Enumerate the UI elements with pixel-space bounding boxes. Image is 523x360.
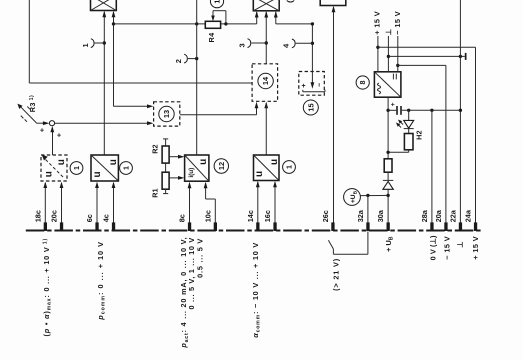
wire with arrow from box 4 up into box 14 bottom xyxy=(264,102,268,108)
node: dot diode bottom junction xyxy=(386,194,389,197)
svg-text:u: u xyxy=(56,159,67,165)
wire +15V rail to terminal 24a xyxy=(378,47,476,222)
svg-text:R4: R4 xyxy=(207,32,216,43)
svg-text:u: u xyxy=(269,159,280,165)
wire terminal 14c to block 4 xyxy=(256,181,260,224)
frame wire from left edge to box 14 xyxy=(29,0,252,83)
wire -15V rail to terminal 20a xyxy=(398,65,446,222)
svg-text:pcomm: 0 ... + 10 V: pcomm: 0 ... + 10 V xyxy=(96,241,107,321)
svg-text:20a: 20a xyxy=(434,209,443,222)
ground tick symbol xyxy=(465,53,467,60)
svg-text:+: + xyxy=(391,102,395,109)
resistor R4 (potentiometer) xyxy=(205,11,256,29)
svg-text:0 V (⊥): 0 V (⊥) xyxy=(428,235,437,260)
resistor R2 (zero adjust) xyxy=(162,139,184,172)
svg-text:i(u): i(u) xyxy=(188,168,195,178)
node: junction dot on R4 wire at x=113.5 xyxy=(112,22,115,25)
svg-text:30a: 30a xyxy=(376,209,385,222)
block 4 (u/u amplifier) xyxy=(254,155,280,181)
block 12 (i(u)/u converter) xyxy=(185,155,209,181)
wire 0V vertical line from top edge to terminal 22a xyxy=(459,0,461,223)
svg-text:+UB: +UB xyxy=(350,190,358,203)
terminal tick 14c xyxy=(256,222,259,231)
diode (reverse polarity protection, cathode up) xyxy=(383,180,393,222)
ramp block 13 (dashed, optional card) xyxy=(154,102,180,126)
svg-text:8: 8 xyxy=(358,81,367,85)
wire from R4 up into box B left input xyxy=(255,11,259,24)
svg-text:4c: 4c xyxy=(102,214,111,222)
resistor R1 (gain adjust) xyxy=(162,172,184,193)
terminal tick 32a xyxy=(366,222,369,231)
svg-text:u: u xyxy=(92,171,103,177)
terminal tick 4c xyxy=(112,222,115,231)
block 1 (dashed input attenuator u/u, adjustable) xyxy=(41,154,67,181)
wire from node to box 13 lower input xyxy=(55,121,154,125)
svg-text:αcomm: − 10 V ... + 10 V: αcomm: − 10 V ... + 10 V xyxy=(251,242,262,338)
wire terminal 20c to block 1 xyxy=(60,182,64,224)
svg-text:+ 15 V: + 15 V xyxy=(373,11,382,35)
svg-text:14: 14 xyxy=(261,76,270,85)
svg-text:+: + xyxy=(40,125,45,134)
circled 12 after block 12 xyxy=(214,159,228,173)
wire into box B middle input (from box 14) xyxy=(264,11,268,64)
terminal tick 8c xyxy=(188,222,191,231)
sheet-link arc 2 xyxy=(174,54,197,63)
svg-text:R1: R1 xyxy=(150,188,159,197)
LED H2 with emission arrows xyxy=(396,110,414,133)
wire terminal 6c to block 2 xyxy=(95,182,99,224)
svg-text:1: 1 xyxy=(285,165,294,169)
wire terminal 10c to block 12 (with jog) xyxy=(204,182,216,224)
svg-text:(p • α)max: 0 ... + 10 V 1): (p • α)max: 0 ... + 10 V 1) xyxy=(42,238,53,337)
node: junction dot arc4 xyxy=(311,42,314,45)
svg-text:u: u xyxy=(108,159,119,165)
svg-text:R3 1): R3 1) xyxy=(28,95,37,112)
block 15 (dashed, limit monitor) xyxy=(299,72,325,116)
node: dot LED branch xyxy=(407,109,410,112)
wire from box B right input down and right to x=312.4 xyxy=(274,11,313,71)
svg-text:− 15 V: − 15 V xyxy=(393,11,402,35)
terminal tick 22a xyxy=(459,222,462,231)
svg-text:14c: 14c xyxy=(246,210,255,222)
node: junction dot corner x=312.4 xyxy=(311,22,314,25)
wire into box A right input with arrow xyxy=(112,11,116,107)
terminal tick 28a xyxy=(430,222,433,231)
relay contact switch 26c to 32a xyxy=(328,232,368,255)
svg-text:3: 3 xyxy=(237,43,246,47)
circled 1 after block 4 xyxy=(283,161,296,174)
svg-text:24a: 24a xyxy=(464,209,473,222)
terminal tick 16c xyxy=(273,222,276,231)
wire vertical x=196.7 from top edge to box 12 xyxy=(196,0,198,155)
partial circled label cut at top edge near box C xyxy=(287,0,294,2)
sheet-link arc 3 xyxy=(237,39,266,48)
svg-text:1: 1 xyxy=(81,43,90,47)
svg-text:⊥: ⊥ xyxy=(384,29,393,35)
svg-text:+: + xyxy=(57,130,62,139)
meter box B (top middle, crossed square, cut by top edge) xyxy=(253,0,279,11)
potentiometer R3 (external, wiper arrow) xyxy=(17,104,49,126)
svg-text:+ UB: + UB xyxy=(384,236,395,252)
svg-text:6c: 6c xyxy=(85,214,94,222)
circled 8 xyxy=(356,76,369,89)
wire resistor to diode xyxy=(387,172,389,180)
node: dot +15V xyxy=(376,46,379,49)
wire box 8 pin -15V xyxy=(397,36,399,72)
wire 0V rail to vertical ground line xyxy=(388,55,464,57)
wire from terminal 26c up into box C with arrow xyxy=(332,6,336,223)
box C (top right, cut by top edge) xyxy=(320,0,346,6)
svg-text:18c: 18c xyxy=(33,210,42,222)
svg-text:20c: 20c xyxy=(50,210,59,222)
svg-text:H2: H2 xyxy=(414,131,423,140)
svg-text:8c: 8c xyxy=(178,214,187,222)
svg-text:⊥: ⊥ xyxy=(455,242,464,248)
svg-text:+: + xyxy=(302,83,306,90)
svg-text:12: 12 xyxy=(217,162,226,170)
wire terminal 16c to block 4 xyxy=(273,181,277,224)
node: dot 0V xyxy=(387,55,390,58)
node: junction dot arc2 xyxy=(195,57,198,60)
terminal tick 20c xyxy=(60,222,63,231)
wire box 13 output to box 14 lower-left input xyxy=(180,102,259,115)
node: dot -15V xyxy=(396,64,399,67)
svg-text:+ 15 V: + 15 V xyxy=(471,236,480,260)
block 14 (dashed, characteristic generator) xyxy=(252,64,278,102)
power supply block 8 (DC/DC converter) xyxy=(374,72,401,97)
terminal tick 6c xyxy=(95,222,98,231)
svg-text:u: u xyxy=(198,159,209,165)
block 2 (u/u amplifier) xyxy=(91,155,119,181)
terminal tick 24a xyxy=(474,222,477,231)
wire terminal 8c to block 12 xyxy=(188,182,192,224)
svg-text:22a: 22a xyxy=(448,209,457,222)
node: dot LED branch bottom xyxy=(386,151,389,154)
node: dot 0V rail end xyxy=(459,109,462,112)
sheet-link arc 1 (left) xyxy=(81,39,104,48)
circled 1 after block 2 xyxy=(120,162,133,175)
capacitor C (electrolytic smoothing) xyxy=(388,102,460,115)
wire with arrow from block 1 up into node xyxy=(50,126,54,155)
meter box A (top left, crossed square, cut by top edge) xyxy=(91,0,117,11)
circled 1 above R4 (cut by top edge) xyxy=(210,0,223,8)
circled 1 after block 1 xyxy=(70,162,83,175)
svg-text:13: 13 xyxy=(162,110,171,118)
svg-text:28a: 28a xyxy=(420,209,429,222)
node: junction dot R4 wiper tap xyxy=(224,22,227,25)
node: dot cap left xyxy=(386,109,389,112)
wire box 8 pin +15V xyxy=(377,36,379,72)
wire box 8 pin 0V xyxy=(387,36,389,72)
svg-text:10c: 10c xyxy=(203,210,212,222)
wire: R4 feed horizontal y=23.9 xyxy=(114,23,206,25)
sheet-link arc 4 xyxy=(282,39,313,48)
svg-text:32a: 32a xyxy=(356,209,365,222)
wire terminal 18c to block 1 xyxy=(43,182,47,224)
resistor (supply series) xyxy=(384,159,392,172)
svg-text:(> 21 V): (> 21 V) xyxy=(332,258,341,291)
svg-text:u: u xyxy=(254,171,265,177)
terminal tick 26c xyxy=(331,222,334,231)
svg-text:1: 1 xyxy=(122,166,131,170)
wire into box A left input with arrow xyxy=(102,11,106,155)
terminal tick 10c xyxy=(214,222,217,231)
svg-text:1: 1 xyxy=(72,166,81,170)
node: dot 0V junction xyxy=(459,55,462,58)
resistor (LED series) xyxy=(388,134,413,153)
wire terminal 4c to block 2 xyxy=(112,182,116,224)
svg-text:−: − xyxy=(317,83,324,87)
node: dot 32a junction xyxy=(366,194,369,197)
svg-text:26c: 26c xyxy=(321,210,330,222)
node: dot 28a branch xyxy=(430,109,433,112)
node: junction dot x=196.7 on R4 wire xyxy=(195,22,198,25)
wire +UB feed from box 8 bottom xyxy=(387,97,389,159)
+UB source circle xyxy=(344,189,389,206)
terminal tick 30a xyxy=(387,222,390,231)
svg-text:2: 2 xyxy=(174,59,183,63)
node: junction dot arc1 on box A left wire xyxy=(103,41,106,44)
svg-text:0.5 ... 5 V: 0.5 ... 5 V xyxy=(195,238,204,278)
wire bend from x=113.5 into box 13 upper input xyxy=(114,104,154,108)
node: junction dot arc3 xyxy=(265,41,268,44)
wire 32a vertical xyxy=(367,195,369,222)
svg-text:u: u xyxy=(43,171,54,177)
wire 28a vertical xyxy=(431,110,433,222)
summing node circle (command) xyxy=(49,121,54,126)
svg-text:4: 4 xyxy=(282,43,291,48)
terminal tick 20a xyxy=(444,222,447,231)
terminal tick 18c xyxy=(44,222,47,231)
svg-text:1: 1 xyxy=(213,0,222,4)
terminal bus chain line xyxy=(26,230,482,232)
svg-text:15: 15 xyxy=(306,103,315,111)
svg-text:− 15 V: − 15 V xyxy=(442,236,451,260)
svg-text:R2: R2 xyxy=(150,144,159,153)
svg-text:16c: 16c xyxy=(263,210,272,222)
